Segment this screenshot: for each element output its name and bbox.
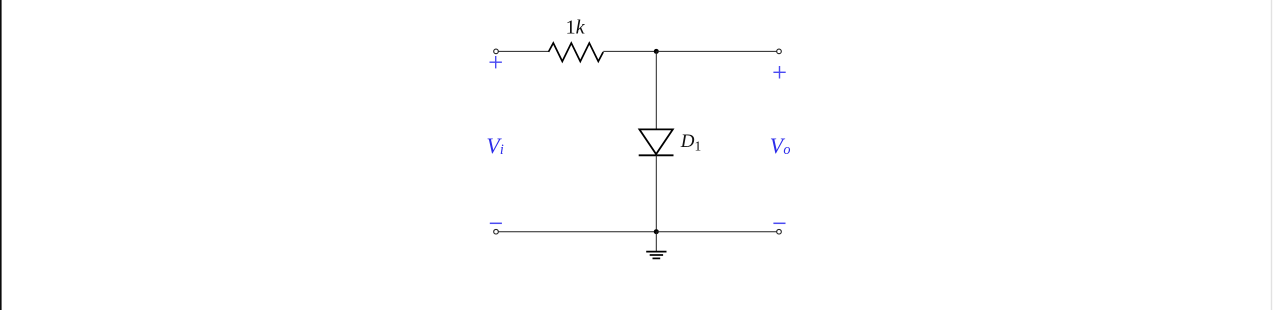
svg-text:D1: D1 [680,131,701,153]
terminal bottom-right (output -) [777,229,782,234]
wire: top junction to top-right terminal [656,50,776,52]
polarity + (input) [490,56,502,68]
wire: bottom junction to bottom-right terminal [656,231,776,233]
terminal bottom-left (input -) [494,229,499,234]
wire: resistor to top junction [603,50,656,52]
polarity - (input) [490,222,502,224]
wire: diode cathode down to bottom junction [655,155,657,231]
svg-text:Vi: Vi [486,134,504,158]
right page divider [1271,0,1272,310]
terminal top-right (output +) [777,49,782,54]
diode D1 cathode bar [639,154,674,156]
left page border [0,0,2,310]
polarity + (output) [773,66,785,79]
wire: top junction down to diode anode [655,51,657,129]
wire: top-left terminal to resistor [498,50,548,52]
terminal top-left (input +) [494,49,499,54]
ground symbol [646,252,666,259]
svg-text:Vo: Vo [770,134,791,158]
polarity - (output) [773,222,785,224]
ground stub wire [655,232,657,251]
wire: bottom-left terminal to bottom junction [498,231,656,233]
resistor R1 1k (zigzag) [549,43,604,61]
diode D1 (triangle) [639,129,672,154]
node: bottom junction [654,229,659,234]
node: top junction [654,49,659,54]
svg-text:1k: 1k [566,17,586,39]
